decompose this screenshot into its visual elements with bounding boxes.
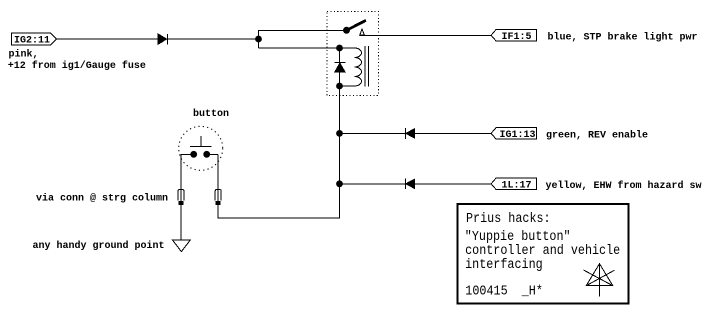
svg-text:button: button	[193, 108, 229, 120]
node REV tap	[336, 130, 343, 137]
connector J2 (right)	[215, 190, 221, 205]
svg-text:interfacing: interfacing	[465, 258, 543, 273]
flag 1L;17	[491, 178, 536, 191]
svg-text:IF1:5: IF1:5	[502, 32, 532, 43]
svg-text:1L:17: 1L:17	[502, 180, 532, 191]
wire node A to relay coil top	[259, 47, 340, 49]
relay switch fixed contact	[360, 29, 365, 35]
svg-text:blue, STP brake light pwr: blue, STP brake light pwr	[548, 31, 698, 43]
title block frame	[458, 204, 629, 304]
wire switch output to IF1;5	[359, 34, 491, 36]
svg-text:pink,: pink,	[9, 49, 39, 61]
wire IG2 flag to junction A	[56, 38, 258, 40]
wire node A to relay switch	[259, 31, 347, 49]
svg-text:green, REV enable: green, REV enable	[546, 129, 648, 141]
svg-text:controller and vehicle: controller and vehicle	[465, 244, 620, 259]
wire bus: coil bottom down and left to button	[218, 86, 339, 218]
svg-text:any handy ground point: any handy ground point	[33, 240, 165, 252]
flyback diode D2 across coil	[334, 62, 345, 72]
svg-text:IG2:11: IG2:11	[14, 36, 50, 47]
svg-text:+12 from ig1/Gauge fuse: +12 from ig1/Gauge fuse	[8, 60, 146, 72]
relay switch pivot node	[343, 27, 350, 34]
node coil top	[336, 45, 343, 52]
svg-text:yellow, EHW from hazard sw: yellow, EHW from hazard sw	[546, 180, 702, 192]
node coil bottom	[336, 83, 343, 90]
logo	[584, 264, 615, 297]
svg-text:via conn @ strg column: via conn @ strg column	[36, 193, 168, 205]
node A junction	[255, 36, 262, 43]
svg-text:Prius hacks:: Prius hacks:	[466, 212, 551, 227]
relay switch blade	[347, 20, 367, 30]
flag IF1;5	[491, 30, 536, 43]
node hazard tap	[336, 180, 343, 187]
svg-text:IG1:13: IG1:13	[500, 130, 536, 141]
relay K1 dotted outline	[327, 11, 378, 95]
ground	[173, 240, 191, 252]
diode D4 (hazard)	[405, 179, 414, 190]
relay core lines	[364, 46, 366, 86]
pushbutton SW1	[190, 136, 211, 158]
wire REV row	[340, 132, 492, 134]
wire button right to bus	[207, 153, 219, 155]
wire hazard row	[340, 183, 492, 185]
relay coil L1	[340, 48, 362, 86]
svg-text:"Yuppie button": "Yuppie button"	[465, 230, 571, 245]
flag IG2;11	[11, 33, 56, 46]
svg-text:100415 _H*: 100415 _H*	[465, 285, 543, 300]
wire flyback diode branch	[339, 48, 341, 86]
connector J1 (left)	[178, 190, 184, 205]
diode D1 (series from IG2)	[158, 34, 168, 45]
flag IG1;13	[491, 128, 536, 141]
diode D3 (REV)	[405, 128, 414, 139]
wire button left to ground	[181, 154, 194, 240]
button dotted circle	[179, 126, 223, 170]
